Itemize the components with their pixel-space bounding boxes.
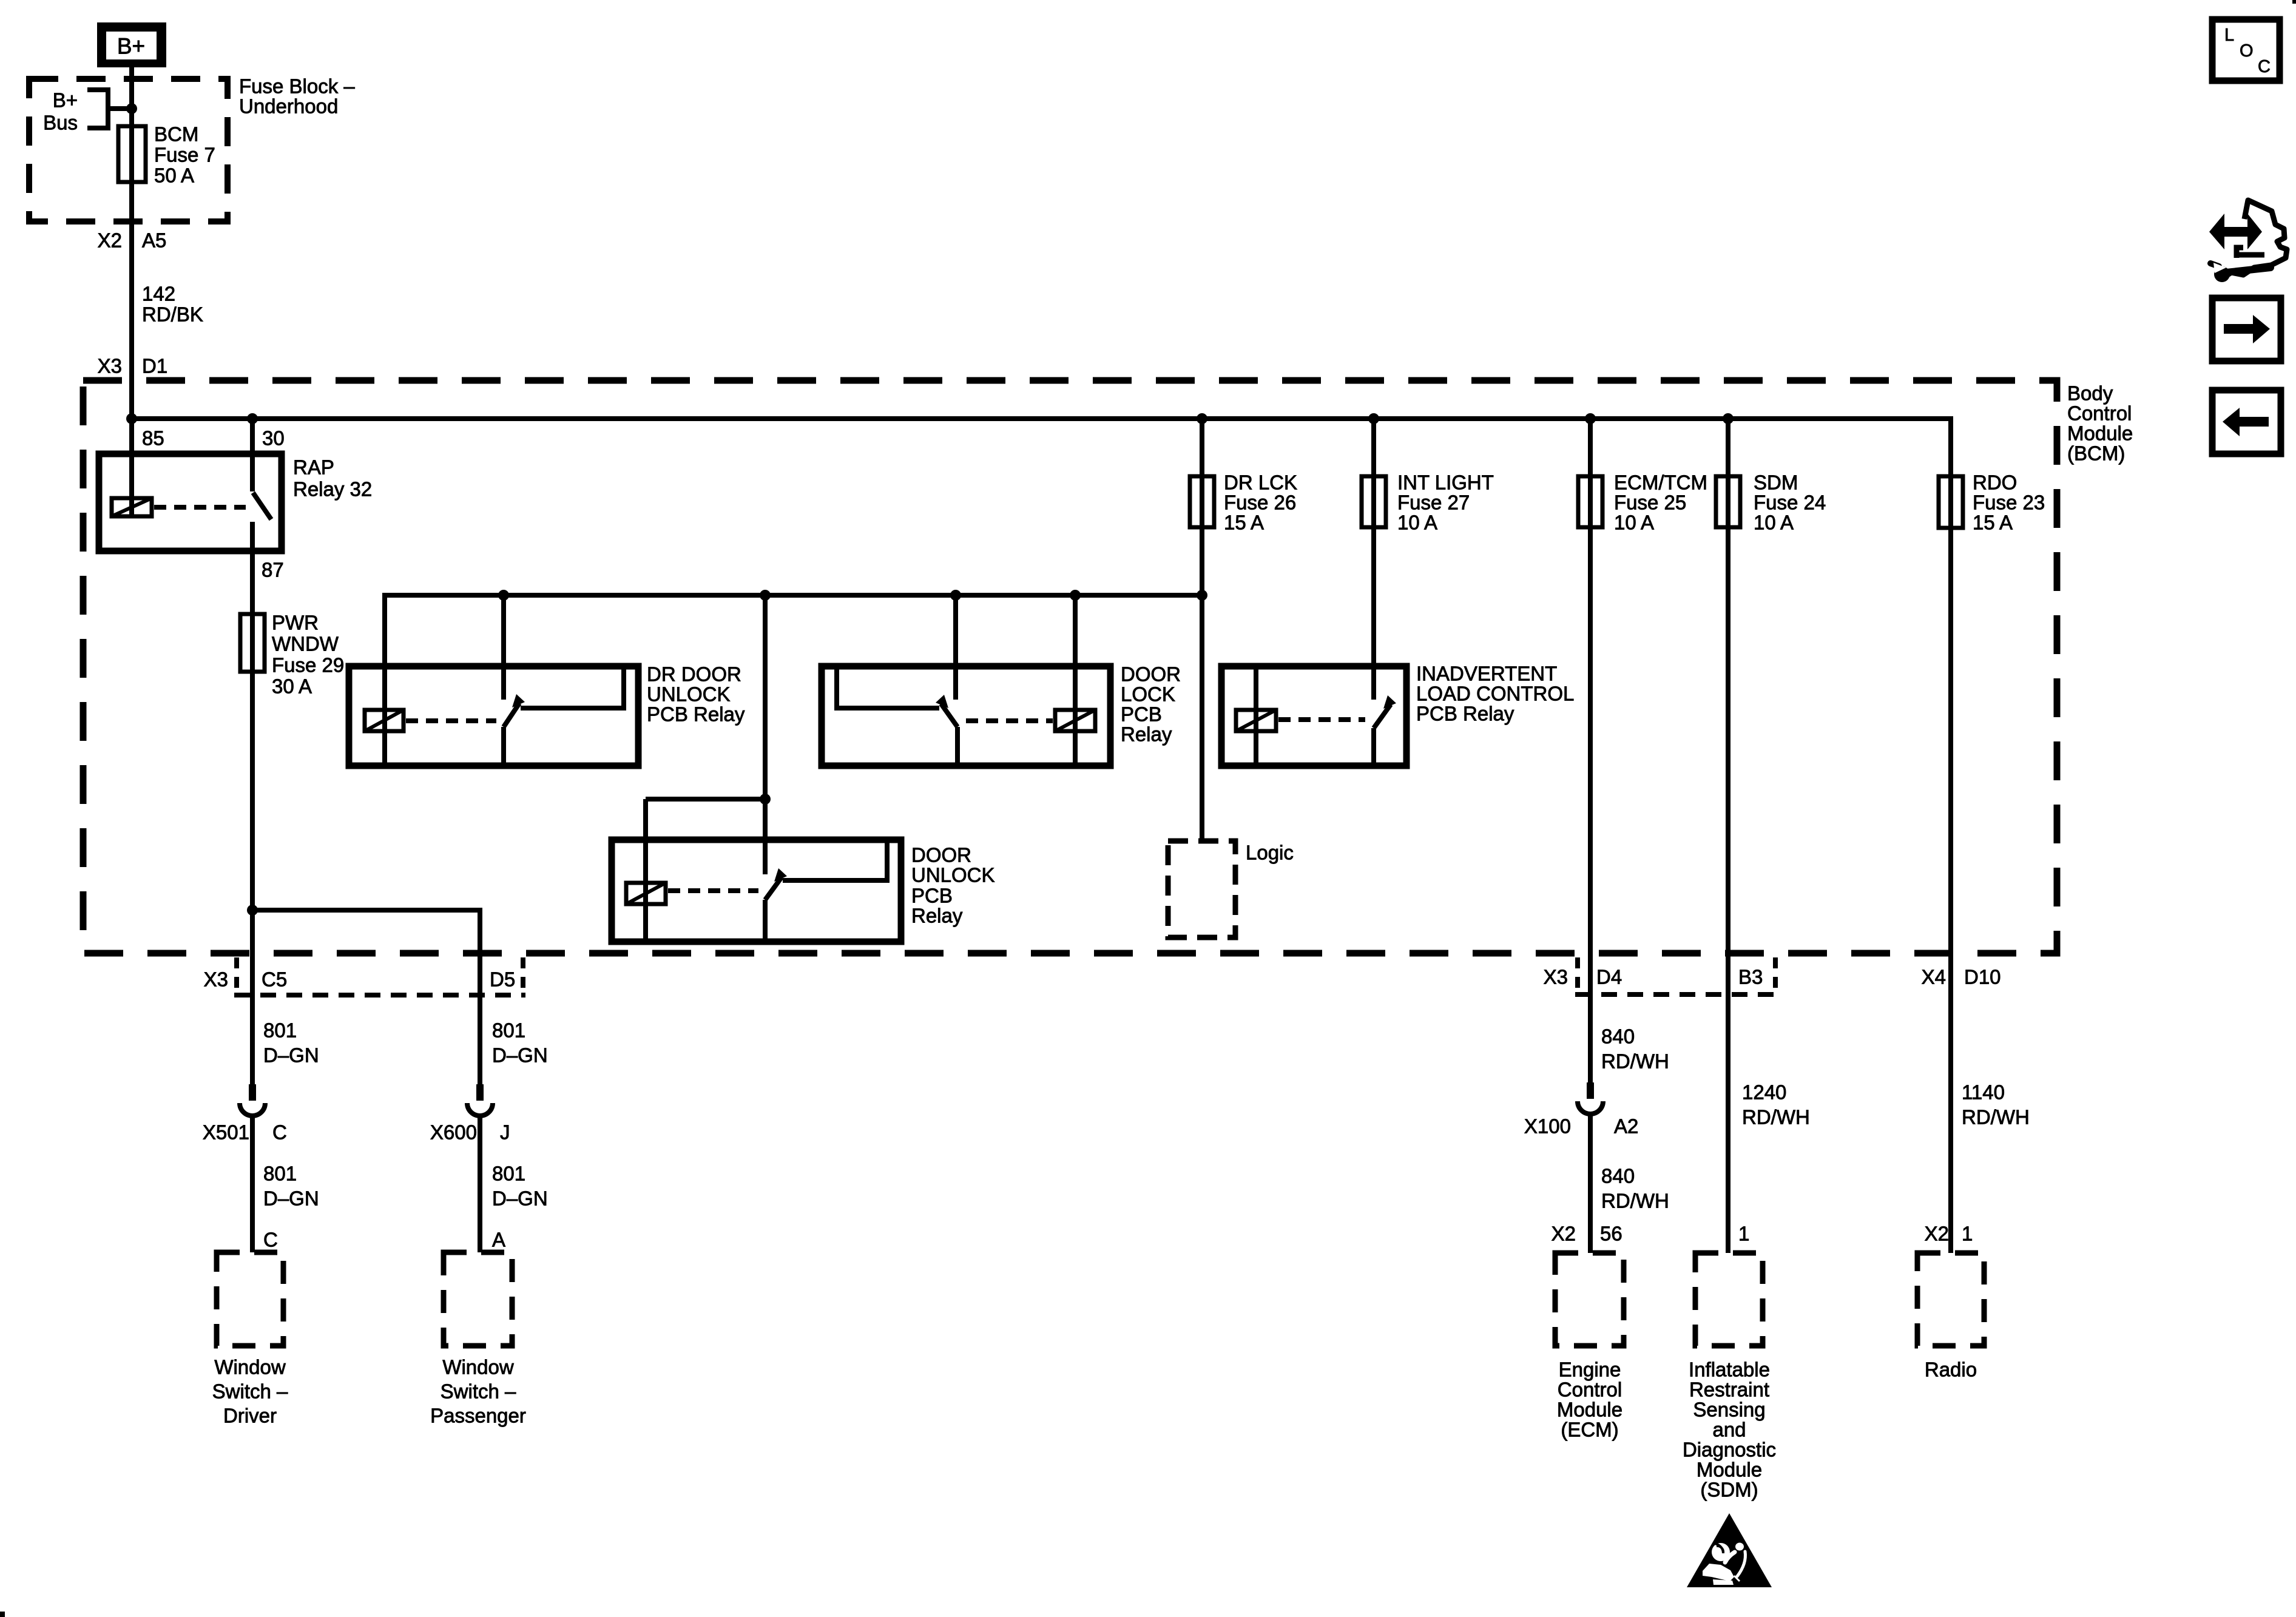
forward arrow legend box: [2212, 298, 2281, 361]
svg-text:Radio: Radio: [1925, 1359, 1977, 1381]
svg-text:RD/WH: RD/WH: [1601, 1050, 1669, 1073]
svg-text:10 A: 10 A: [1754, 511, 1794, 534]
svg-text:DR LCK: DR LCK: [1224, 471, 1297, 494]
svg-text:142: 142: [142, 283, 175, 305]
svg-text:B3: B3: [1738, 966, 1763, 988]
svg-text:(BCM): (BCM): [2067, 442, 2125, 465]
svg-text:Inflatable: Inflatable: [1689, 1359, 1770, 1381]
svg-text:ECM/TCM: ECM/TCM: [1614, 471, 1707, 494]
svg-text:D–GN: D–GN: [492, 1187, 548, 1210]
svg-text:D–GN: D–GN: [492, 1044, 548, 1067]
LOC legend box top right: [2212, 19, 2280, 81]
body repair icon door outline: [2215, 200, 2287, 277]
fuse block underhood dashed box: [29, 79, 228, 221]
svg-text:LOAD CONTROL: LOAD CONTROL: [1416, 683, 1574, 705]
svg-text:Underhood: Underhood: [239, 95, 338, 118]
svg-text:840: 840: [1601, 1165, 1635, 1187]
wire ECM lower: [1588, 1115, 1593, 1253]
svg-text:56: 56: [1600, 1223, 1622, 1245]
wire label 801 D-GN passenger upper: [492, 1019, 548, 1067]
svg-text:Bus: Bus: [43, 112, 78, 134]
Inflatable Restraint SDM dashed box: [1683, 1253, 1776, 1501]
svg-text:INT LIGHT: INT LIGHT: [1397, 471, 1494, 494]
svg-text:RDO: RDO: [1973, 471, 2017, 494]
Window Switch Driver dashed box: [212, 1252, 288, 1427]
body repair icon double arrow: [2209, 214, 2262, 249]
B+ power symbol box: [97, 22, 166, 67]
node junction bus2 to DOOR LOCK switch: [950, 590, 961, 601]
svg-text:O: O: [2240, 41, 2254, 61]
wire driver window switch drop: [250, 910, 255, 1084]
wire B+ to fuse block and down to BCM bus: [129, 67, 134, 421]
svg-text:Control: Control: [2067, 402, 2132, 425]
svg-text:SDM: SDM: [1754, 471, 1798, 494]
svg-text:15 A: 15 A: [1973, 511, 2013, 534]
svg-text:10 A: 10 A: [1397, 511, 1437, 534]
svg-text:L: L: [2224, 25, 2234, 45]
svg-text:X2: X2: [98, 229, 122, 252]
svg-text:1: 1: [1738, 1223, 1749, 1245]
connector box X3 C5 D5 at BCM bottom: [204, 957, 525, 995]
svg-text:1140: 1140: [1962, 1081, 2005, 1104]
svg-text:X4: X4: [1922, 966, 1946, 988]
svg-text:Fuse Block –: Fuse Block –: [239, 75, 355, 98]
svg-text:30 A: 30 A: [272, 675, 312, 698]
svg-text:A2: A2: [1614, 1115, 1638, 1138]
svg-text:D5: D5: [490, 968, 515, 991]
node junction bus to INT LIGHT fuse: [1368, 413, 1379, 424]
svg-text:Control: Control: [1558, 1379, 1622, 1401]
svg-text:DOOR: DOOR: [911, 844, 971, 866]
svg-text:UNLOCK: UNLOCK: [647, 683, 731, 706]
DR DOOR UNLOCK relay switch: [504, 595, 624, 766]
svg-text:X3: X3: [98, 355, 122, 377]
fuse DR LCK Fuse 26 15 A: [1190, 419, 1297, 841]
connector X100 inline: [1524, 1082, 1638, 1138]
svg-text:801: 801: [263, 1019, 297, 1042]
svg-text:B+: B+: [117, 34, 145, 59]
node junction bus2 to DOOR LOCK coil: [1070, 590, 1081, 601]
connector labels X4 D10: [1922, 966, 2001, 988]
node junction bus to RAP relay pin 30: [247, 413, 258, 424]
relay INADVERTENT LOAD CONTROL PCB Relay box: [1221, 663, 1574, 766]
airbag warning triangle symbol: [1687, 1513, 1772, 1587]
relay DOOR UNLOCK PCB Relay box: [612, 840, 995, 942]
fuse RDO Fuse 23 15 A: [1939, 419, 2045, 1253]
fuse ECM/TCM Fuse 25 10 A: [1578, 419, 1707, 1084]
wire label 1240 RD/WH: [1742, 1081, 1810, 1129]
svg-text:(ECM): (ECM): [1561, 1419, 1618, 1441]
svg-text:Window: Window: [214, 1356, 286, 1379]
wire driver window switch lower: [250, 1116, 255, 1252]
svg-text:X600: X600: [430, 1121, 477, 1144]
RAP relay coil: [112, 421, 246, 516]
svg-text:Engine: Engine: [1559, 1359, 1621, 1381]
back arrow legend box: [2212, 390, 2281, 454]
svg-text:30: 30: [262, 427, 285, 450]
node junction bus to SDM fuse: [1723, 413, 1734, 424]
DOOR LOCK relay switch: [837, 595, 957, 766]
relay DR DOOR UNLOCK PCB Relay box: [349, 663, 745, 766]
fuse PWR WNDW Fuse 29 30 A: [240, 612, 344, 698]
connector labels X3 D1: [98, 355, 168, 377]
connector X600 inline: [430, 1084, 510, 1144]
wire branch from fuse 29 to window switches: [252, 910, 480, 1084]
wire label 840 RD/WH upper: [1601, 1025, 1669, 1073]
main feed bus wire inside BCM: [132, 419, 1951, 476]
wire label 801 D-GN driver upper: [263, 1019, 319, 1067]
secondary bus wire from DR DOOR relay across to DR LCK wire: [385, 595, 1202, 768]
svg-text:X2: X2: [1925, 1223, 1949, 1245]
wire fuse 29 down to branch junction: [250, 614, 255, 912]
svg-text:C: C: [263, 1229, 278, 1251]
Engine Control Module dashed box: [1555, 1253, 1624, 1441]
svg-text:X2: X2: [1551, 1223, 1576, 1245]
node junction window switch branch: [247, 905, 258, 916]
wire branch to DOOR UNLOCK coil: [646, 797, 765, 802]
svg-text:C: C: [272, 1121, 287, 1144]
svg-text:RD/BK: RD/BK: [142, 303, 203, 326]
svg-text:and: and: [1712, 1419, 1746, 1441]
svg-text:BCM: BCM: [154, 123, 198, 146]
node junction bus2 to DOOR UNLOCK relay feed: [760, 590, 771, 601]
svg-text:X3: X3: [204, 968, 228, 991]
svg-text:50 A: 50 A: [154, 164, 194, 187]
svg-text:A: A: [492, 1229, 505, 1251]
wire DOOR UNLOCK relay feed from bus2: [763, 595, 768, 874]
svg-text:Module: Module: [1557, 1399, 1622, 1421]
wire label 801 D-GN driver lower: [263, 1163, 319, 1210]
svg-text:(SDM): (SDM): [1700, 1479, 1758, 1501]
fuse BCM Fuse 7 50 A: [118, 123, 215, 187]
wire label 142 RD/BK: [142, 283, 203, 326]
pin labels X2 1 radio: [1925, 1223, 1973, 1245]
svg-text:Relay: Relay: [911, 905, 963, 927]
page corner mark top right: [2292, 0, 2296, 4]
svg-text:Passenger: Passenger: [430, 1405, 526, 1427]
node junction bus to DR LCK fuse: [1197, 413, 1207, 424]
svg-text:RD/WH: RD/WH: [1962, 1106, 2030, 1129]
fuse SDM Fuse 24 10 A: [1716, 419, 1826, 1253]
svg-text:WNDW: WNDW: [272, 633, 339, 655]
svg-text:D–GN: D–GN: [263, 1044, 319, 1067]
svg-text:X100: X100: [1524, 1115, 1571, 1138]
svg-text:INADVERTENT: INADVERTENT: [1416, 663, 1557, 685]
svg-text:C: C: [2258, 57, 2271, 76]
svg-text:PCB: PCB: [1121, 703, 1162, 726]
svg-text:Module: Module: [1697, 1459, 1762, 1481]
svg-text:PCB: PCB: [911, 885, 953, 907]
svg-text:C5: C5: [262, 968, 287, 991]
INADVERTENT relay coil: [1236, 666, 1365, 766]
connector labels X2 A5: [98, 229, 167, 252]
svg-text:10 A: 10 A: [1614, 511, 1654, 534]
node junction DOOR UNLOCK feed split: [760, 794, 771, 805]
svg-text:Switch –: Switch –: [441, 1380, 516, 1403]
wire label 840 RD/WH lower: [1601, 1165, 1669, 1212]
svg-text:Diagnostic: Diagnostic: [1683, 1439, 1776, 1461]
node junction bus2 meets DR LCK fuse wire: [1197, 590, 1207, 601]
svg-text:801: 801: [263, 1163, 297, 1185]
svg-text:J: J: [500, 1121, 510, 1144]
RAP relay switch pin 30: [252, 419, 271, 614]
svg-text:PCB Relay: PCB Relay: [647, 703, 745, 726]
svg-text:D–GN: D–GN: [263, 1187, 319, 1210]
relay RAP Relay 32: [99, 454, 372, 551]
svg-text:Fuse 26: Fuse 26: [1224, 491, 1296, 514]
svg-text:Fuse 25: Fuse 25: [1614, 491, 1686, 514]
svg-text:RD/WH: RD/WH: [1742, 1106, 1810, 1129]
svg-text:Fuse 24: Fuse 24: [1754, 491, 1826, 514]
label Fuse Block - Underhood: [239, 75, 355, 118]
svg-text:Driver: Driver: [223, 1405, 277, 1427]
svg-text:PWR: PWR: [272, 612, 319, 634]
svg-text:LOCK: LOCK: [1121, 683, 1175, 706]
Logic dashed box: [1168, 841, 1294, 937]
svg-text:840: 840: [1601, 1025, 1635, 1048]
DOOR UNLOCK relay coil: [626, 799, 758, 942]
svg-text:801: 801: [492, 1163, 525, 1185]
svg-text:Module: Module: [2067, 422, 2133, 445]
svg-text:DOOR: DOOR: [1121, 663, 1181, 686]
svg-text:RAP: RAP: [293, 456, 334, 479]
svg-text:87: 87: [262, 559, 284, 581]
svg-text:A5: A5: [142, 229, 166, 252]
svg-text:801: 801: [492, 1019, 525, 1042]
svg-text:Relay: Relay: [1121, 723, 1172, 746]
Radio dashed box: [1917, 1253, 1984, 1381]
svg-text:D4: D4: [1596, 966, 1622, 988]
svg-text:Fuse 29: Fuse 29: [272, 654, 344, 677]
Window Switch Passenger dashed box: [430, 1252, 526, 1427]
svg-text:Body: Body: [2067, 382, 2113, 405]
svg-text:X501: X501: [203, 1121, 249, 1144]
DOOR UNLOCK relay switch: [765, 843, 887, 942]
svg-text:D10: D10: [1964, 966, 2001, 988]
body repair icon wrench: [2210, 263, 2271, 282]
node B+ Bus tap bracket: [43, 89, 137, 134]
svg-text:PCB Relay: PCB Relay: [1416, 703, 1514, 725]
svg-text:X3: X3: [1544, 966, 1568, 988]
svg-text:Restraint: Restraint: [1689, 1379, 1769, 1401]
svg-text:Sensing: Sensing: [1693, 1399, 1765, 1421]
svg-text:Window: Window: [442, 1356, 514, 1379]
relay DOOR LOCK PCB Relay box: [822, 663, 1181, 766]
wire passenger window switch lower: [478, 1116, 482, 1252]
svg-text:Fuse 27: Fuse 27: [1397, 491, 1470, 514]
DR DOOR UNLOCK relay coil: [365, 666, 496, 766]
svg-text:1240: 1240: [1742, 1081, 1786, 1104]
connector box X3 D4 B3 at BCM bottom right: [1544, 957, 1778, 994]
svg-text:1: 1: [1962, 1223, 1973, 1245]
pin labels X2 56: [1551, 1223, 1622, 1245]
connector X501 inline: [203, 1084, 287, 1144]
svg-text:DR DOOR: DR DOOR: [647, 663, 741, 686]
svg-text:85: 85: [142, 427, 164, 450]
svg-text:RD/WH: RD/WH: [1601, 1190, 1669, 1212]
svg-text:Switch –: Switch –: [212, 1380, 288, 1403]
Body Control Module dashed box: [83, 380, 2057, 953]
svg-text:Fuse 7: Fuse 7: [154, 144, 215, 166]
svg-text:15 A: 15 A: [1224, 511, 1264, 534]
label Body Control Module (BCM): [2067, 382, 2133, 465]
node junction B+ feed to bus: [126, 413, 137, 424]
node junction bus2 to DR DOOR switch: [498, 590, 509, 601]
fuse INT LIGHT Fuse 27 10 A: [1362, 471, 1494, 534]
INADVERTENT relay switch fed from INT LIGHT fuse: [1374, 419, 1396, 766]
wire label 801 D-GN passenger lower: [492, 1163, 548, 1210]
svg-text:Fuse 23: Fuse 23: [1973, 491, 2045, 514]
DOOR LOCK relay coil: [966, 595, 1095, 766]
svg-text:Relay 32: Relay 32: [293, 478, 372, 501]
wire label 1140 RD/WH: [1962, 1081, 2030, 1129]
svg-text:UNLOCK: UNLOCK: [911, 864, 995, 886]
page corner mark bottom left: [0, 1612, 5, 1617]
svg-text:Logic: Logic: [1246, 842, 1294, 864]
svg-text:D1: D1: [142, 355, 167, 377]
svg-text:B+: B+: [53, 89, 78, 112]
node junction bus to ECM/TCM fuse: [1585, 413, 1596, 424]
